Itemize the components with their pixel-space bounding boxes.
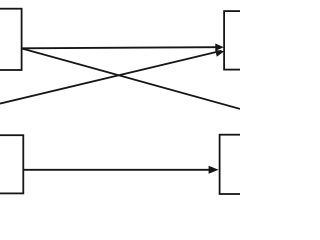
arrowhead of top horizontal arrow [215, 44, 224, 51]
node: bottom-left box (clipped at left edge) [0, 135, 23, 193]
wire: top horizontal arrow from top-left box to top-right box [21, 47, 216, 48]
node: top-left box (clipped at left edge) [0, 9, 22, 70]
wire: diagonal from top-left box toward lower-right (clipped at right edge) [21, 48, 240, 109]
arrowhead of bottom horizontal arrow [209, 166, 219, 174]
wire: bottom horizontal arrow from bottom-left box to bottom-right box [23, 169, 211, 171]
node: bottom-right box (clipped at right edge) [220, 135, 249, 194]
wire: diagonal from left edge up to top-right box [0, 51, 222, 104]
arrowhead of diagonal into top-right box [215, 50, 224, 57]
node: top-right box (clipped at right edge) [224, 11, 248, 70]
